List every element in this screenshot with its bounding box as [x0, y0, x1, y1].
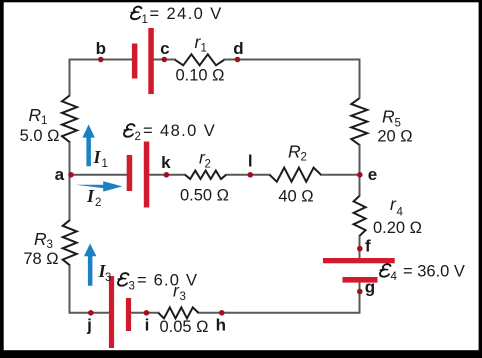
svg-text:R: R: [34, 229, 47, 249]
svg-text:l: l: [248, 152, 253, 171]
svg-text:I: I: [93, 147, 102, 167]
svg-text:i: i: [145, 316, 150, 335]
svg-text:R: R: [29, 105, 42, 125]
svg-text:= 6.0 V: = 6.0 V: [137, 272, 198, 290]
svg-text:e: e: [368, 165, 377, 184]
svg-text:1: 1: [41, 115, 47, 127]
svg-text:= 24.0 V: = 24.0 V: [150, 5, 223, 23]
svg-text:1: 1: [201, 43, 207, 55]
svg-text:c: c: [160, 39, 169, 58]
svg-text:1: 1: [142, 14, 148, 26]
svg-text:2: 2: [301, 152, 307, 164]
svg-text:5.0 Ω: 5.0 Ω: [20, 127, 60, 145]
svg-text:0.20 Ω: 0.20 Ω: [373, 219, 422, 237]
svg-text:0.05 Ω: 0.05 Ω: [159, 318, 208, 336]
svg-text:= 36.0 V: = 36.0 V: [403, 263, 465, 281]
svg-text:40 Ω: 40 Ω: [278, 188, 313, 206]
svg-text:g: g: [365, 278, 375, 297]
svg-text:0.10 Ω: 0.10 Ω: [175, 67, 224, 85]
svg-text:= 48.0 V: = 48.0 V: [143, 122, 216, 140]
svg-text:3: 3: [105, 272, 111, 284]
svg-text:0.50 Ω: 0.50 Ω: [180, 187, 229, 205]
svg-text:I: I: [86, 186, 95, 206]
svg-text:R: R: [382, 107, 395, 127]
svg-text:4: 4: [397, 207, 404, 219]
svg-text:d: d: [233, 39, 243, 58]
svg-text:h: h: [216, 316, 226, 335]
svg-text:R: R: [288, 142, 301, 162]
svg-text:3: 3: [129, 281, 135, 293]
svg-text:2: 2: [95, 197, 101, 209]
svg-text:2: 2: [205, 159, 211, 171]
svg-text:f: f: [365, 237, 371, 256]
svg-text:78 Ω: 78 Ω: [23, 250, 58, 268]
svg-text:4: 4: [391, 271, 398, 283]
svg-text:k: k: [161, 153, 171, 172]
svg-text:j: j: [86, 316, 92, 335]
svg-text:20 Ω: 20 Ω: [377, 128, 412, 146]
svg-text:2: 2: [135, 131, 141, 143]
svg-text:1: 1: [102, 158, 108, 170]
svg-text:3: 3: [180, 291, 186, 303]
svg-text:b: b: [96, 39, 106, 58]
svg-text:a: a: [55, 165, 65, 184]
